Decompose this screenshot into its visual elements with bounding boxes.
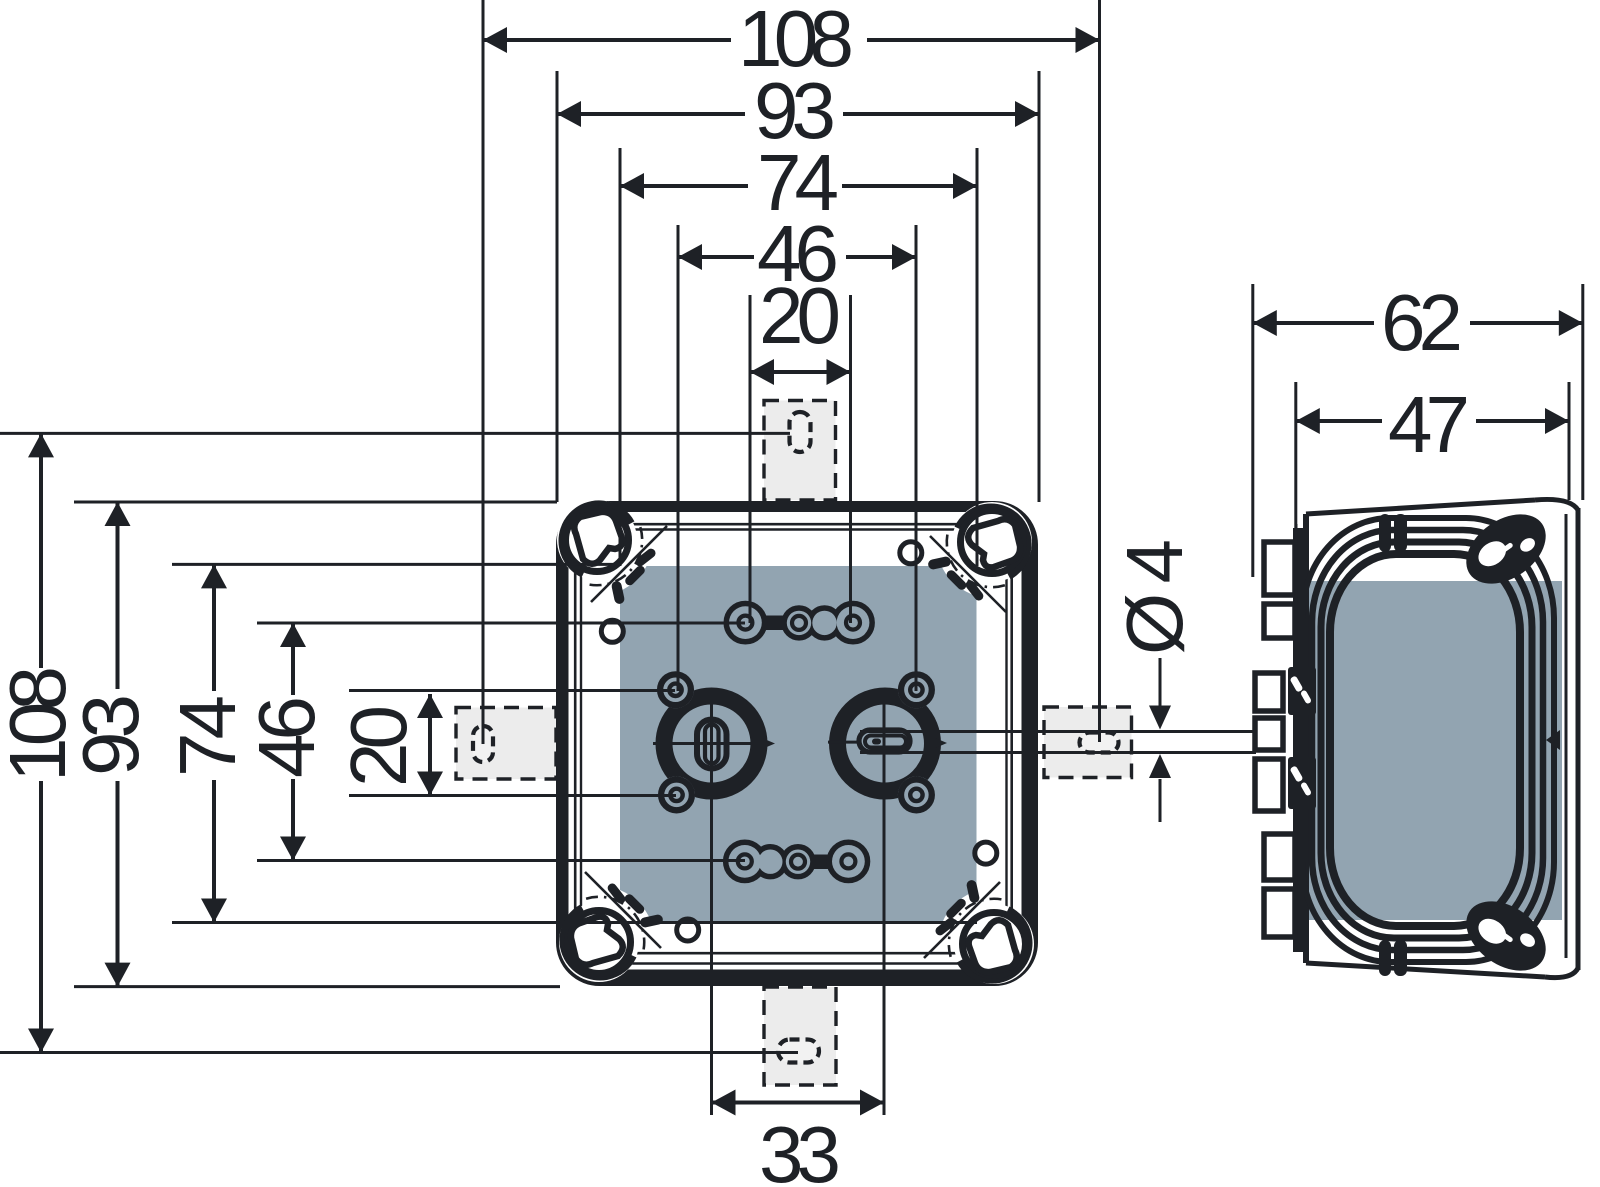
svg-text:20: 20 xyxy=(759,271,841,360)
svg-text:47: 47 xyxy=(1388,380,1470,469)
svg-text:62: 62 xyxy=(1381,278,1463,367)
svg-text:46: 46 xyxy=(242,696,331,778)
svg-text:74: 74 xyxy=(163,695,252,777)
svg-text:33: 33 xyxy=(759,1110,841,1187)
svg-text:20: 20 xyxy=(334,705,423,787)
svg-text:Ø 4: Ø 4 xyxy=(1110,539,1199,655)
svg-text:93: 93 xyxy=(66,694,155,776)
